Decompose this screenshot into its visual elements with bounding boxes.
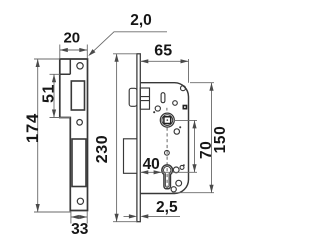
dimension 2,5 — [124, 215, 181, 217]
lock case — [140, 83, 188, 194]
dimension 40 — [140, 171, 197, 173]
svg-text:2,0: 2,0 — [130, 12, 152, 29]
dimension 51 — [50, 74, 71, 117]
svg-text:33: 33 — [71, 221, 89, 238]
strike plate latch cutout — [71, 81, 84, 110]
small hole on centerline — [165, 150, 170, 155]
strike plate center hole — [77, 120, 83, 126]
dimension 20 — [60, 45, 88, 60]
svg-text:150: 150 — [212, 126, 229, 154]
svg-text:51: 51 — [40, 84, 57, 103]
latch block inside case — [140, 88, 149, 109]
auxiliary bolt rectangle (lower left protrusion) — [124, 139, 137, 174]
dimension 65 — [140, 59, 188, 83]
latch bolt — [129, 88, 137, 106]
svg-text:65: 65 — [154, 42, 172, 59]
svg-text:2,5: 2,5 — [156, 199, 178, 216]
euro cylinder profile — [162, 165, 173, 189]
strike plate top screw hole — [77, 63, 83, 69]
svg-text:20: 20 — [63, 30, 80, 47]
strike plate deadbolt cutout — [72, 139, 86, 187]
dimension 150 — [172, 83, 214, 193]
dimension 33 — [71, 212, 87, 224]
strike plate outline — [60, 59, 88, 211]
lock faceplate — [137, 54, 140, 222]
svg-text:230: 230 — [94, 135, 111, 164]
svg-text:174: 174 — [24, 113, 42, 143]
dimension 70 — [174, 120, 197, 172]
svg-text:40: 40 — [143, 156, 160, 173]
strike plate bottom screw hole — [77, 198, 83, 204]
case small holes — [155, 106, 160, 111]
dimension 230 — [113, 54, 137, 222]
slot above follower — [161, 93, 165, 103]
follower (square spindle hub) — [160, 113, 174, 127]
dimension 174 — [34, 59, 71, 212]
dashed centerline — [166, 108, 168, 111]
